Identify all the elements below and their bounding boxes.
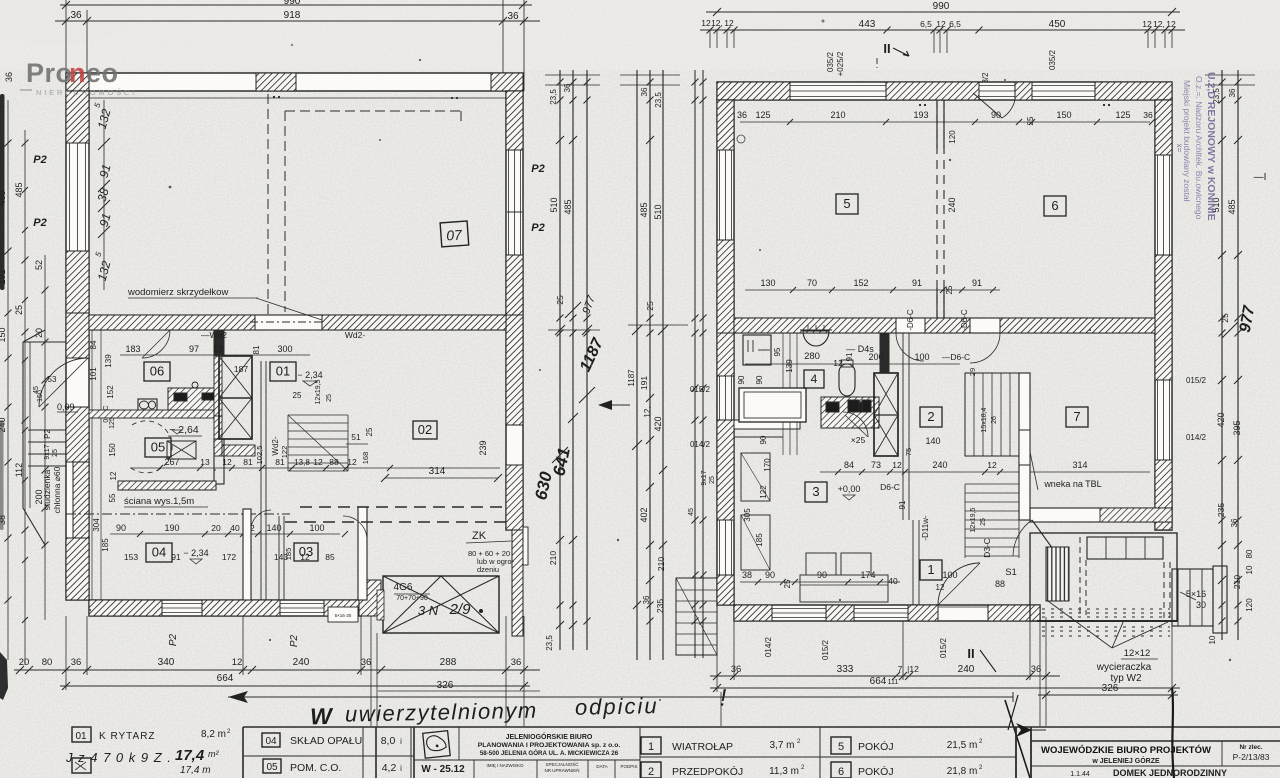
svg-text:03: 03 (299, 544, 313, 559)
right chain top ticks (1205, 74, 1255, 76)
dim row rp y360 (745, 363, 960, 365)
middle chain group B (598, 70, 688, 660)
table col dividers left (362, 727, 364, 778)
svg-text:ściana wys.1,5m: ściana wys.1,5m (124, 496, 194, 507)
svg-text:04: 04 (265, 736, 277, 747)
interior dim row C (130, 467, 500, 469)
left wall hatch segment 3 (66, 313, 89, 358)
svg-text:12,: 12, (711, 18, 723, 28)
svg-text:—Wd2: —Wd2 (201, 330, 227, 340)
svg-text:200: 200 (868, 352, 883, 362)
rp bottom hatch4 (988, 605, 1040, 621)
svg-text:12: 12 (936, 19, 946, 29)
svg-text:015/2: 015/2 (1186, 376, 1207, 385)
svg-text:36: 36 (642, 595, 651, 604)
svg-text:314: 314 (429, 466, 446, 477)
svg-text:17,4 m: 17,4 m (180, 765, 211, 776)
room list 02 box partial (72, 758, 91, 773)
svg-text:240: 240 (293, 657, 310, 668)
rp right wall window1 (1157, 155, 1159, 255)
svg-text:918: 918 (284, 10, 301, 21)
svg-text:210: 210 (548, 551, 558, 565)
svg-text:P2: P2 (43, 429, 52, 439)
room 05 dashed circle table (131, 421, 172, 473)
svg-text:122: 122 (280, 446, 289, 459)
bathroom hatched band (821, 397, 879, 428)
svg-text:w JELENIEJ GÓRZE: w JELENIEJ GÓRZE (1091, 756, 1160, 765)
svg-text:1.1.44: 1.1.44 (1070, 771, 1090, 778)
svg-text:wodomierz skrzydełkow: wodomierz skrzydełkow (127, 287, 228, 298)
double divider before right block (1015, 727, 1017, 778)
svg-text:485: 485 (639, 202, 649, 217)
toilet (839, 364, 855, 396)
svg-text:130: 130 (760, 278, 775, 288)
svg-text:153: 153 (124, 552, 138, 562)
svg-text:88: 88 (329, 457, 339, 467)
svg-text:90: 90 (755, 375, 764, 384)
svg-text:13,8: 13,8 (294, 458, 310, 467)
left wall hatch segment bottom (66, 538, 89, 600)
arrow left small (598, 400, 612, 410)
middle big slash ticks (565, 302, 581, 318)
wodomierz pointer (256, 298, 322, 320)
svg-text:191: 191 (639, 376, 649, 390)
right wall window upper P2 (508, 150, 510, 212)
rooms col 2 (831, 737, 851, 754)
rp left wall hatch3 (717, 333, 734, 376)
svg-text:420: 420 (653, 416, 663, 431)
svg-text:90: 90 (765, 570, 775, 580)
svg-text:12: 12 (701, 18, 711, 28)
svg-text:36: 36 (1228, 88, 1237, 97)
svg-text:12: 12 (724, 18, 734, 28)
svg-text:100: 100 (914, 352, 929, 362)
svg-text:52: 52 (34, 260, 44, 270)
svg-text:25: 25 (365, 427, 374, 436)
svg-text:36: 36 (563, 83, 572, 92)
svg-text:17,4: 17,4 (175, 747, 205, 764)
corridor wall right of chimney (260, 361, 262, 600)
room 07 inner top line (89, 97, 506, 99)
svg-text:1187: 1187 (627, 369, 636, 387)
svg-text:W - 25.12: W - 25.12 (421, 764, 465, 775)
kitchen 05 divider wall (89, 410, 214, 418)
svg-text:97: 97 (189, 344, 199, 354)
05 pom co row (263, 759, 281, 773)
svg-text:125: 125 (1115, 110, 1130, 120)
svg-text:140: 140 (925, 436, 940, 446)
handwritten vertical stroke through table (1172, 688, 1174, 778)
svg-text:+0,00: +0,00 (838, 484, 861, 494)
svg-text:P2: P2 (531, 222, 544, 234)
left plan top wall hatch right corner (491, 73, 523, 91)
svg-text:U.2,D REJONOWY w KONINIE: U.2,D REJONOWY w KONINIE (1205, 72, 1217, 221)
mid wall hatch left part (89, 315, 255, 330)
svg-text:36: 36 (511, 657, 522, 668)
rp right wall end cap (1155, 529, 1172, 531)
svg-text:25: 25 (645, 301, 655, 311)
svg-text:23,5: 23,5 (549, 89, 558, 105)
sink bathroom (803, 331, 829, 346)
rooms col 1 row2 (641, 762, 661, 778)
rooms col 2 row2 (831, 762, 851, 778)
dash-dot line under sciana (66, 513, 290, 515)
svg-text:300: 300 (277, 344, 292, 354)
svg-text:81: 81 (243, 457, 253, 467)
svg-text:420: 420 (1216, 412, 1226, 427)
svg-text:326: 326 (1102, 683, 1119, 694)
svg-text:5: 5 (843, 196, 850, 211)
door arc room3 (843, 412, 868, 437)
dashed boundary below room 02 (300, 506, 506, 508)
svg-text:25: 25 (783, 579, 792, 588)
svg-text:5×16: 5×16 (1186, 589, 1206, 599)
svg-text:120: 120 (948, 130, 957, 144)
svg-text:P2: P2 (168, 633, 179, 646)
svg-text:7: 7 (898, 664, 903, 674)
left plan mid wall wodomierz (89, 315, 506, 330)
mid wall hatch right part (322, 315, 506, 330)
table row divider left section (243, 755, 414, 757)
left plan group (0, 0, 545, 726)
svg-text:06: 06 (150, 364, 164, 379)
bottom wall doormat rect (328, 607, 358, 622)
svg-text:|12: |12 (907, 664, 919, 674)
svg-text:81: 81 (252, 345, 261, 354)
long arrow line under plans (228, 696, 1013, 698)
svg-text:Pro: Pro (26, 58, 73, 88)
svg-text:100: 100 (309, 523, 324, 533)
rp left wall hatch5 (717, 575, 734, 605)
svg-text:990: 990 (933, 1, 950, 12)
svg-text:12,: 12, (643, 406, 652, 417)
svg-text:510: 510 (653, 204, 663, 219)
svg-text:26: 26 (991, 416, 998, 424)
dim chain 990 top left plan (60, 4, 532, 6)
svg-text:05: 05 (266, 762, 278, 773)
svg-text:015/2: 015/2 (821, 639, 830, 660)
svg-text:73: 73 (871, 460, 881, 470)
rooms col 1 (641, 737, 661, 754)
svg-text:36: 36 (1230, 518, 1239, 527)
rp bottom window2 (854, 608, 908, 610)
svg-text:80: 80 (42, 657, 53, 668)
bottom wall hatch 1 (89, 600, 162, 616)
svg-text:55: 55 (108, 493, 117, 502)
mid wall dash-dot gap (250, 321, 325, 323)
bottom wall hatch 3 (324, 600, 361, 616)
svg-text:eo: eo (86, 58, 119, 88)
rp chain 664 (710, 687, 1180, 689)
kitchen pot circle (192, 382, 198, 388)
svg-text:150: 150 (37, 390, 44, 402)
room 3 label box (805, 482, 827, 502)
svg-text:6: 6 (1051, 198, 1058, 213)
big slash right chain (1222, 322, 1238, 338)
svg-text:185: 185 (284, 548, 293, 561)
scan dirt specks (89, 59, 1231, 701)
svg-text:21,5 m: 21,5 m (947, 740, 978, 751)
svg-text:12: 12 (892, 460, 902, 470)
svg-text:chłonna ⌀60: chłonna ⌀60 (52, 466, 62, 513)
terrace dashed verticals (1079, 537, 1081, 615)
black squares near chimney (848, 400, 859, 412)
svg-text:75: 75 (904, 448, 913, 456)
right plan bottom wall (734, 605, 1040, 621)
chain pair left of right plan (694, 70, 696, 658)
4G6 garbage box (383, 576, 499, 633)
room list scribble row (65, 747, 219, 776)
svg-text:studzienka: studzienka (42, 469, 52, 510)
rp bottom window1 (772, 608, 826, 610)
svg-text:90: 90 (759, 435, 768, 444)
left plan left wall (66, 91, 89, 600)
svg-text:25: 25 (52, 449, 59, 457)
table col divider before rooms (639, 727, 641, 778)
room list 01 korytarz (72, 727, 91, 742)
right plan group (676, 1, 1227, 726)
bottom wall hatch 2 (202, 600, 280, 616)
room 04 label box (146, 543, 172, 562)
rp bottom extension lines (716, 621, 718, 692)
svg-text:172: 172 (222, 552, 236, 562)
right wall hatch top (506, 91, 523, 150)
room02 314 line (385, 477, 498, 479)
svg-text:6,5: 6,5 (920, 19, 932, 29)
svg-text:88: 88 (995, 579, 1005, 589)
svg-text:POKÓJ: POKÓJ (858, 765, 894, 778)
room 4 label box (804, 370, 824, 388)
svg-text:—I: —I (1254, 172, 1267, 183)
svg-text:wycieraczka: wycieraczka (1096, 662, 1152, 673)
porch door swing (39, 358, 88, 407)
svg-text:168: 168 (361, 452, 370, 465)
svg-text:152: 152 (106, 385, 115, 399)
svg-text:187: 187 (234, 364, 248, 374)
svg-text:91: 91 (912, 278, 922, 288)
svg-text:NIERUCHOMOŚCI: NIERUCHOMOŚCI (36, 88, 137, 97)
svg-text:38: 38 (0, 515, 7, 525)
svg-text:POKÓJ: POKÓJ (858, 740, 894, 753)
svg-text:240: 240 (958, 664, 975, 675)
svg-text:9x17: 9x17 (701, 470, 708, 485)
washer square (743, 335, 771, 365)
svg-text:D3-C: D3-C (982, 538, 992, 558)
svg-text:30: 30 (1196, 600, 1206, 610)
left outer chain x8 (7, 100, 9, 660)
svg-text:12×12: 12×12 (1124, 648, 1151, 659)
room 2 label box (920, 407, 942, 427)
svg-text:8,2 m: 8,2 m (201, 729, 226, 740)
svg-text:20: 20 (19, 657, 30, 668)
svg-text:139: 139 (104, 354, 113, 368)
handwritten slash marks near table right (1005, 700, 1030, 778)
bottom wall window P2 right (280, 603, 324, 605)
svg-text:WOJEWÓDZKIE BIURO PROJEKTÓW: WOJEWÓDZKIE BIURO PROJEKTÓW (1041, 744, 1211, 756)
svg-text:7: 7 (1073, 409, 1080, 424)
wycieraczka dash rows lower (1042, 626, 1170, 628)
svg-text:SKŁAD OPAŁU: SKŁAD OPAŁU (290, 735, 362, 747)
terrace glazing strip (1087, 537, 1163, 559)
svg-text:90: 90 (991, 110, 1001, 120)
svg-text:Wd2-: Wd2- (271, 436, 280, 455)
table frame (243, 726, 1280, 728)
04 sklad opalu row (262, 733, 280, 747)
kitchen sink double bowl (138, 399, 157, 412)
svg-text:-D6-C: -D6-C (906, 309, 915, 331)
sofa set room3 (806, 553, 836, 575)
room 02 label box (413, 421, 437, 439)
svg-text:485: 485 (14, 182, 24, 197)
left wall hatch segment 2 (66, 251, 89, 313)
svg-text:45: 45 (688, 508, 695, 516)
svg-text:70: 70 (807, 278, 817, 288)
table divider under logo (414, 759, 640, 761)
svg-text:139: 139 (785, 359, 794, 373)
svg-text:190: 190 (164, 523, 179, 533)
svg-text:395: 395 (1232, 420, 1242, 435)
svg-text:333: 333 (837, 664, 854, 675)
svg-text:111: 111 (888, 679, 899, 686)
svg-text:4: 4 (811, 372, 818, 386)
dim chain 990 top right plan (706, 11, 1180, 13)
dim row rp y468 (820, 471, 1150, 473)
svg-text:36: 36 (737, 110, 747, 120)
svg-text:25: 25 (14, 305, 24, 315)
svg-text:i: i (400, 737, 402, 746)
right plan mid wall (734, 318, 1155, 333)
svg-text:12,: 12, (1153, 19, 1165, 29)
svg-text:510: 510 (549, 197, 559, 212)
kitchen counter hatched (168, 388, 216, 415)
svg-text:5: 5 (838, 741, 844, 753)
svg-text:n: n (69, 58, 86, 88)
svg-text:36: 36 (70, 10, 82, 21)
svg-text:990: 990 (284, 0, 301, 7)
office stamp purple vertical text (1182, 72, 1217, 221)
svg-text:485: 485 (1227, 199, 1237, 214)
svg-text:K RYTARZ: K RYTARZ (99, 731, 156, 742)
stairs lower flight rp (965, 484, 1019, 558)
chimney flue block (219, 356, 252, 439)
svg-text:4G6: 4G6 (394, 582, 413, 593)
svg-text:IMIĘ I NAZWISKO: IMIĘ I NAZWISKO (486, 763, 524, 768)
dim row rp y578 (740, 581, 900, 583)
svg-text:12: 12 (109, 471, 118, 480)
handwritten annotation w uwierzytelnionym odpisie (310, 685, 728, 730)
table arrow left at right block (1016, 723, 1032, 737)
svg-text:20: 20 (211, 523, 221, 533)
svg-text:21,8 m: 21,8 m (947, 766, 978, 777)
middle chain group A (531, 70, 607, 651)
left outer chain x45 (44, 255, 46, 620)
svg-text:36: 36 (1143, 110, 1153, 120)
svg-text:23,5: 23,5 (545, 635, 554, 651)
svg-text:91: 91 (898, 500, 907, 509)
svg-text:uwierzytelnionym: uwierzytelnionym (345, 698, 538, 727)
interior dim row y118 (740, 121, 1150, 123)
bathroom extension lines (782, 333, 784, 455)
svg-text:91: 91 (171, 552, 181, 562)
tick cluster verticals (709, 30, 711, 48)
left edge black mark bottom (0, 652, 8, 700)
svg-text:70+70+90: 70+70+90 (396, 595, 428, 602)
room 07 dashed overhang rect (284, 111, 286, 312)
svg-text:Miejski projekt budowlany z: Miejski projekt budowlany został (1182, 80, 1192, 202)
svg-text:25: 25 (1026, 116, 1035, 125)
hall inner wall lines (91, 330, 93, 600)
wycieraczka pointer lines (1048, 601, 1112, 648)
rp right wall hatch2 (1155, 255, 1172, 380)
kitchen black strip left (174, 393, 187, 401)
svg-text:P-2/13/83: P-2/13/83 (1233, 752, 1270, 762)
porch outline (23, 342, 66, 545)
svg-text:402: 402 (639, 507, 649, 522)
svg-text:x=: x= (1175, 144, 1184, 153)
room 07 dashed partition line (267, 94, 269, 316)
svg-text:36: 36 (4, 72, 14, 82)
svg-text:1: 1 (927, 562, 934, 577)
svg-text:m²: m² (208, 749, 219, 759)
bathroom zone walls (734, 420, 800, 429)
rooms row divider (640, 756, 1016, 758)
right wall niche ZK (517, 527, 528, 565)
svg-text:36: 36 (361, 657, 372, 668)
wardrobe left rp (741, 453, 770, 501)
rp bottom hatch3 (908, 605, 938, 621)
svg-text:odpiciu: odpiciu (575, 693, 659, 720)
svg-text:84: 84 (844, 460, 854, 470)
logo cell (458, 727, 460, 760)
left wall hatch segment 5 (73, 462, 89, 538)
svg-text:12: 12 (213, 344, 223, 354)
svg-text:25: 25 (1220, 313, 1230, 323)
bathroom black squares (826, 402, 839, 412)
svg-text:485: 485 (0, 190, 7, 205)
partition 04/03 (278, 516, 280, 600)
rp mid wall hatch b (925, 318, 970, 333)
extension lines top left plan (65, 0, 67, 73)
bottom extension lines (65, 616, 67, 690)
rp bottom hatch2 (826, 605, 854, 621)
svg-text:25: 25 (293, 391, 302, 400)
svg-text:01: 01 (276, 364, 290, 379)
svg-text:240: 240 (932, 460, 947, 470)
svg-text:3: 3 (812, 484, 819, 499)
svg-text:DOMEK JEDNORODZINNY: DOMEK JEDNORODZINNY (1113, 768, 1227, 778)
stairs upper flight rp (965, 373, 1019, 456)
svg-text:12x19,5: 12x19,5 (970, 507, 977, 532)
svg-text:36: 36 (640, 87, 649, 96)
svg-text:W: W (310, 703, 335, 729)
svg-text:95: 95 (773, 347, 782, 356)
svg-text:PODPIS: PODPIS (620, 764, 637, 769)
svg-text:Wd2-: Wd2- (345, 330, 365, 340)
svg-text:Nr zlec.: Nr zlec. (1239, 744, 1262, 751)
svg-text:05: 05 (151, 440, 165, 455)
stairs small flight (288, 414, 348, 416)
svg-text:SPECJALNOŚĆ: SPECJALNOŚĆ (545, 760, 579, 767)
svg-text:II: II (883, 41, 890, 56)
room 7 bottom wall (1030, 508, 1172, 522)
svg-text:304: 304 (92, 518, 101, 532)
svg-text:40: 40 (230, 523, 240, 533)
left plan top wall hatch left corner (66, 73, 89, 91)
svg-text:JELENIOGÓRSKIE BIURO: JELENIOGÓRSKIE BIURO (506, 732, 593, 741)
svg-text:12: 12 (232, 657, 243, 668)
svg-text:443: 443 (859, 19, 876, 30)
rp left wall hatch2 (717, 240, 734, 333)
